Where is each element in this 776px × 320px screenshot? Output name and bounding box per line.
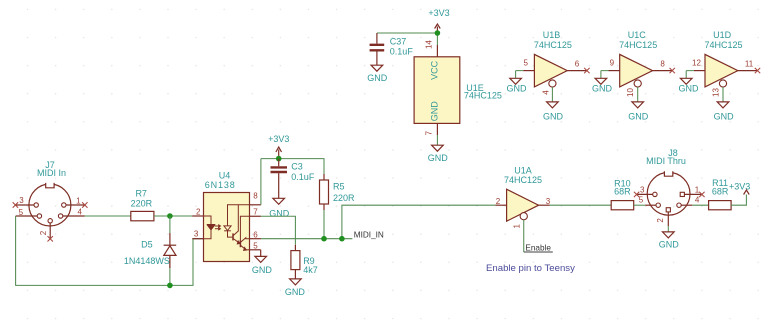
- svg-text:7: 7: [253, 208, 258, 217]
- svg-text:GND: GND: [628, 111, 649, 121]
- IC U1E 74HC125 power unit: [414, 40, 502, 136]
- junction node R5/MIDI_IN: [321, 236, 327, 242]
- svg-text:GND: GND: [543, 111, 564, 121]
- svg-text:GND: GND: [285, 287, 306, 297]
- wire U1D enable to ground: [722, 87, 724, 102]
- svg-text:68R: 68R: [712, 187, 729, 197]
- svg-text:68R: 68R: [614, 187, 631, 197]
- svg-text:11: 11: [745, 60, 754, 69]
- svg-text:9: 9: [610, 59, 615, 68]
- svg-text:2: 2: [496, 197, 501, 206]
- svg-text:D5: D5: [141, 239, 153, 249]
- svg-text:MIDI_IN: MIDI_IN: [354, 231, 384, 240]
- wire MIDI_IN to U1A input: [342, 205, 496, 239]
- svg-text:1: 1: [76, 196, 81, 205]
- wire U1B enable to ground: [551, 87, 553, 102]
- power +3V3 at R11: [729, 181, 750, 194]
- ground below R9: [285, 279, 306, 297]
- no-connect J7 pin2: [48, 236, 53, 241]
- svg-text:3: 3: [546, 197, 551, 206]
- connector J8 MIDI Thru: [637, 148, 702, 226]
- ground at U1C input: [592, 78, 613, 93]
- wire J8 pin4 to R11: [692, 204, 708, 206]
- capacitor C37 0.1uF: [370, 33, 414, 65]
- connector J7 MIDI In: [15, 160, 84, 239]
- svg-text:Enable pin to Teensy: Enable pin to Teensy: [486, 263, 575, 274]
- svg-text:8: 8: [660, 60, 665, 69]
- wire U4 pin8 riser: [260, 159, 262, 205]
- wire +3V3 rail to R5 top: [261, 159, 324, 174]
- svg-text:U1B: U1B: [543, 30, 561, 40]
- svg-text:220R: 220R: [131, 198, 153, 208]
- svg-text:+3V3: +3V3: [729, 181, 750, 191]
- svg-text:74HC125: 74HC125: [534, 40, 572, 50]
- svg-text:2: 2: [39, 230, 48, 235]
- capacitor C3 0.1uF: [271, 159, 315, 199]
- svg-text:U1D: U1D: [713, 30, 732, 40]
- wire J8 pin2 to ground: [667, 226, 669, 232]
- no-connect J7 pin1: [82, 202, 87, 207]
- svg-text:GND: GND: [714, 111, 735, 121]
- svg-text:GND: GND: [430, 101, 440, 122]
- svg-text:74HC125: 74HC125: [619, 40, 657, 50]
- svg-text:6: 6: [575, 60, 580, 69]
- ground at U1D input: [679, 78, 700, 93]
- svg-text:GND: GND: [269, 208, 290, 218]
- no-connect J8 pin3: [634, 192, 639, 197]
- svg-text:4k7: 4k7: [303, 265, 318, 275]
- power +3V3 above U1E: [428, 8, 449, 33]
- svg-text:3: 3: [19, 196, 24, 205]
- svg-text:GND: GND: [679, 83, 700, 93]
- wire R7 to U4 pin2: [154, 215, 204, 217]
- ground below U1E: [428, 145, 449, 163]
- svg-text:GND: GND: [507, 83, 528, 93]
- svg-text:8: 8: [253, 192, 258, 201]
- svg-text:5: 5: [523, 59, 528, 68]
- wire U4 pin7 to R9: [261, 216, 296, 245]
- svg-text:0.1uF: 0.1uF: [390, 47, 414, 57]
- svg-text:5: 5: [19, 208, 24, 217]
- resistor R5 220R: [320, 174, 356, 210]
- buffer U1C 74HC125: [609, 30, 673, 97]
- svg-text:6: 6: [253, 230, 258, 239]
- junction node U1E VCC: [435, 30, 441, 36]
- wire C37 to U1E pin14: [377, 33, 438, 45]
- diode D5 1N4148WS: [124, 233, 176, 268]
- svg-text:1: 1: [513, 224, 522, 229]
- wire U1A enable to label: [523, 220, 525, 252]
- ground at U1C enable: [628, 102, 649, 121]
- svg-text:1: 1: [695, 186, 700, 195]
- svg-text:12: 12: [692, 59, 701, 68]
- svg-text:R7: R7: [135, 189, 147, 199]
- svg-text:C3: C3: [291, 161, 303, 171]
- buffer U1B 74HC125: [523, 30, 587, 95]
- ground at U4 pin5: [252, 250, 273, 275]
- svg-text:GND: GND: [592, 83, 613, 93]
- wire U1D input to ground: [686, 71, 694, 79]
- svg-text:2: 2: [196, 208, 201, 217]
- svg-text:6N138: 6N138: [205, 180, 235, 190]
- svg-text:GND: GND: [428, 153, 449, 163]
- svg-text:GND: GND: [367, 73, 388, 83]
- svg-text:MIDI Thru: MIDI Thru: [646, 156, 686, 166]
- resistor R10 68R: [611, 178, 634, 210]
- svg-text:1N4148WS: 1N4148WS: [124, 256, 170, 266]
- resistor R9 4k7: [291, 245, 318, 279]
- svg-text:74HC125: 74HC125: [704, 40, 742, 50]
- optocoupler U4 6N138: [192, 171, 261, 262]
- wire U1E pin7 to ground: [436, 135, 438, 145]
- wire U1C enable to ground: [637, 87, 639, 102]
- text note Enable pin to Teensy: [486, 263, 575, 274]
- wire R5 bottom to MIDI_IN net: [323, 210, 325, 239]
- svg-text:3: 3: [194, 230, 199, 239]
- wire U1B input to ground: [516, 71, 524, 79]
- no-connect U1C output: [670, 68, 675, 73]
- svg-text:MIDI In: MIDI In: [37, 168, 66, 178]
- svg-text:C37: C37: [390, 36, 407, 46]
- power +3V3 above C3: [268, 134, 289, 158]
- no-connect U1D output: [755, 68, 760, 73]
- net label Enable: [524, 244, 553, 253]
- buffer U1A 74HC125: [495, 166, 550, 229]
- svg-text:Enable: Enable: [525, 244, 551, 253]
- no-connect J8 pin1: [699, 192, 704, 197]
- wire U4 pin6 MIDI_IN net: [261, 238, 353, 240]
- svg-text:0.1uF: 0.1uF: [291, 172, 315, 182]
- wire D5 column: [169, 216, 171, 285]
- svg-text:74HC125: 74HC125: [504, 175, 542, 185]
- svg-text:3: 3: [640, 186, 645, 195]
- svg-text:+3V3: +3V3: [428, 8, 449, 18]
- svg-text:2: 2: [656, 218, 665, 223]
- svg-text:5: 5: [253, 241, 258, 250]
- svg-text:13: 13: [712, 88, 721, 97]
- wire U1A output to R10: [550, 204, 611, 206]
- ground below C37: [367, 65, 388, 83]
- buffer U1D 74HC125: [692, 30, 757, 97]
- wire J7 pin5 to U4 pin3 (bottom run): [16, 216, 204, 285]
- svg-text:+3V3: +3V3: [268, 134, 289, 144]
- ground at U1B enable: [543, 102, 564, 121]
- junction node riser/MIDI_IN: [339, 236, 345, 242]
- svg-text:R5: R5: [333, 181, 345, 191]
- svg-text:VCC: VCC: [430, 60, 440, 80]
- svg-text:220R: 220R: [333, 193, 355, 203]
- svg-text:U1C: U1C: [628, 30, 647, 40]
- junction node R7/D5: [167, 213, 173, 219]
- ground below C3: [269, 198, 290, 218]
- ground at U1B input: [507, 78, 528, 93]
- wire R10 to J8 pin5: [634, 204, 646, 206]
- wire R11 to +3V3: [731, 195, 746, 206]
- no-connect J7 pin3: [13, 202, 18, 207]
- ground below J8: [659, 232, 680, 250]
- svg-text:14: 14: [425, 40, 434, 49]
- net label MIDI_IN: [354, 231, 384, 240]
- no-connect U1B output: [584, 68, 589, 73]
- resistor R7 220R: [131, 189, 154, 221]
- svg-text:4: 4: [542, 90, 551, 95]
- svg-text:7: 7: [425, 130, 434, 135]
- junction node +3V3/C3: [276, 156, 282, 162]
- svg-text:10: 10: [626, 88, 635, 97]
- ground at U1D enable: [714, 102, 735, 121]
- wire U1C input to ground: [601, 71, 609, 79]
- junction node D5/bottom wire: [167, 283, 173, 289]
- svg-text:GND: GND: [252, 265, 273, 275]
- svg-text:GND: GND: [659, 240, 680, 250]
- svg-text:4: 4: [77, 207, 82, 216]
- wire J7 pin4 to R7: [85, 215, 131, 217]
- svg-text:74HC125: 74HC125: [464, 90, 502, 100]
- resistor R11 68R: [709, 178, 732, 210]
